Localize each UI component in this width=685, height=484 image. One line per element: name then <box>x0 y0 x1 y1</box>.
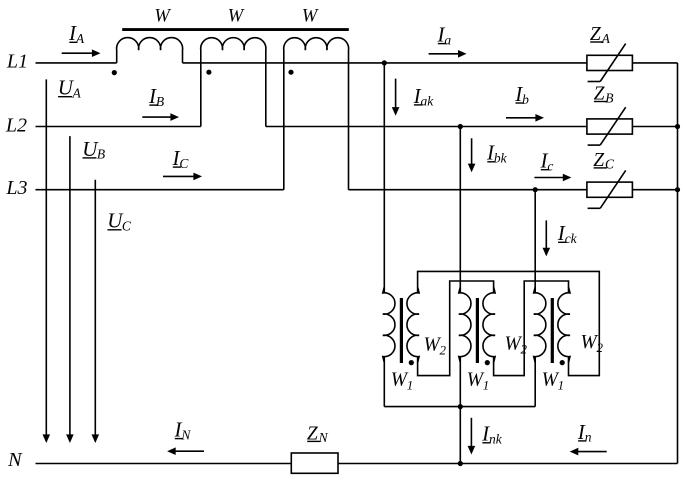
svg-text:L2: L2 <box>5 115 27 137</box>
svg-text:2: 2 <box>440 343 447 358</box>
svg-text:L1: L1 <box>6 50 28 72</box>
svg-text:1: 1 <box>558 377 565 392</box>
svg-text:B: B <box>97 147 105 162</box>
svg-text:B: B <box>605 90 613 105</box>
svg-text:n: n <box>585 430 592 445</box>
svg-text:C: C <box>122 219 132 234</box>
svg-text:A: A <box>601 31 611 46</box>
svg-text:B: B <box>156 94 164 109</box>
svg-text:1: 1 <box>483 377 490 392</box>
svg-text:N: N <box>7 449 23 471</box>
svg-text:A: A <box>75 31 85 46</box>
svg-text:N: N <box>180 427 191 442</box>
svg-text:L3: L3 <box>5 177 27 199</box>
svg-text:N: N <box>318 430 329 445</box>
svg-text:2: 2 <box>597 340 604 355</box>
svg-text:C: C <box>179 156 189 171</box>
svg-text:A: A <box>72 86 82 101</box>
svg-text:W: W <box>154 7 171 27</box>
svg-text:nk: nk <box>489 432 503 447</box>
svg-text:W: W <box>228 7 245 27</box>
svg-text:W: W <box>302 7 319 27</box>
svg-text:b: b <box>522 92 529 107</box>
svg-text:a: a <box>444 32 451 47</box>
svg-text:ck: ck <box>565 231 578 246</box>
svg-text:bk: bk <box>494 151 508 166</box>
svg-text:1: 1 <box>407 377 414 392</box>
svg-text:c: c <box>547 159 553 174</box>
svg-text:C: C <box>605 157 615 172</box>
svg-text:ak: ak <box>421 94 435 109</box>
svg-text:2: 2 <box>521 342 528 357</box>
